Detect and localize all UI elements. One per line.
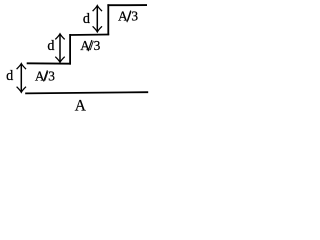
tall solidus overlay (middle A/3): [88, 40, 92, 51]
tall solidus overlay (bottom A/3): [44, 70, 48, 81]
step 2 riser (vertical drop d): [69, 34, 71, 65]
tall solidus overlay (top A/3): [127, 11, 131, 23]
svg-text:d: d: [47, 38, 54, 54]
double arrow d (top step): [93, 6, 102, 32]
step 1 surface line (length A/3): [27, 62, 71, 64]
svg-text:d: d: [83, 11, 90, 27]
step 3 riser (vertical drop d): [107, 4, 109, 35]
double arrow d (middle step): [55, 34, 64, 63]
svg-text:A: A: [75, 97, 86, 114]
base aperture line (length A): [25, 92, 148, 93]
double arrow d (bottom step): [17, 64, 26, 93]
step 3 top surface line (length A/3): [107, 4, 147, 6]
svg-text:A/3: A/3: [118, 9, 138, 24]
svg-text:d: d: [6, 68, 13, 84]
step 2 surface line (length A/3): [69, 34, 109, 37]
